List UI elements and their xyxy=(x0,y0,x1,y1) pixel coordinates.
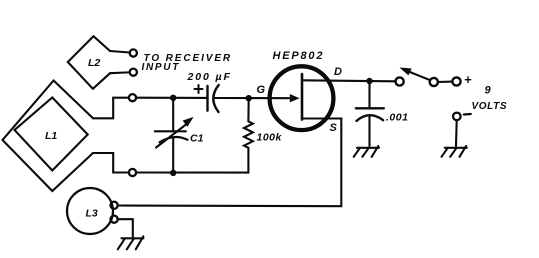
node L2 top terminal xyxy=(130,49,137,56)
node C1 bottom junction xyxy=(170,170,176,176)
coil L1 inner turn xyxy=(15,98,88,171)
node gate junction xyxy=(246,95,252,101)
transistor Q1 gate arrowhead xyxy=(290,95,298,102)
capacitor C2 200uF flat plate xyxy=(206,86,208,111)
coil L3 xyxy=(67,188,113,234)
switch S1 pivot terminal xyxy=(430,78,438,86)
battery minus dash xyxy=(464,113,471,116)
node C1 top junction xyxy=(170,95,176,101)
wire drain run xyxy=(302,80,395,81)
ground L3 xyxy=(118,236,144,249)
node tank top terminal xyxy=(129,94,136,101)
wire C1 bottom lead xyxy=(172,138,174,173)
wire .001 top lead xyxy=(368,81,370,107)
transistor Q1 channel bar xyxy=(301,74,304,120)
ground under .001 xyxy=(354,146,379,157)
ground under minus terminal xyxy=(442,146,467,157)
transistor Q1 HEP802 circle xyxy=(270,66,334,130)
svg-text:200 µF: 200 µF xyxy=(187,71,232,83)
svg-text:.001: .001 xyxy=(386,112,408,124)
svg-text:INPUT: INPUT xyxy=(142,62,181,73)
capacitor C1 arrow xyxy=(156,125,186,148)
wire .001 bottom lead xyxy=(368,116,370,146)
svg-text:L3: L3 xyxy=(86,208,98,220)
node L3 bottom terminal xyxy=(111,216,118,223)
svg-text:+: + xyxy=(464,72,472,87)
svg-text:G: G xyxy=(257,84,266,96)
wire source to L3 (long bottom run) xyxy=(118,119,342,207)
capacitor C2 200uF plus sign xyxy=(195,85,203,93)
wire L1 top breakout xyxy=(93,98,129,119)
node tank bottom terminal xyxy=(129,169,136,176)
node L2 bottom terminal xyxy=(130,69,137,76)
capacitor C1 flat plate xyxy=(155,130,186,132)
node battery plus terminal xyxy=(452,77,460,85)
capacitor C3 .001 curved plate xyxy=(357,115,384,121)
node L3 top terminal xyxy=(111,202,118,209)
wire switch to battery plus xyxy=(438,81,452,84)
wire L2 bottom terminal lead xyxy=(110,71,130,74)
svg-text:L2: L2 xyxy=(88,57,100,69)
capacitor C1 curved plate xyxy=(160,137,188,142)
wire tank top left segment xyxy=(136,97,207,99)
coil L1 outer turn xyxy=(3,81,94,192)
switch S1 arm xyxy=(410,72,430,80)
svg-text:VOLTS: VOLTS xyxy=(472,101,508,112)
wire C1 top lead xyxy=(172,98,174,131)
wire L1 bottom breakout xyxy=(93,153,129,173)
wire L3 bottom to ground xyxy=(118,219,133,236)
resistor R1 100k xyxy=(244,98,253,172)
svg-text:L1: L1 xyxy=(45,130,57,142)
svg-text:C1: C1 xyxy=(190,133,204,145)
svg-text:D: D xyxy=(334,66,342,78)
wire minus terminal to ground xyxy=(455,120,458,146)
wire tank top right segment (cap to gate) xyxy=(215,97,292,99)
wire L2 top terminal lead xyxy=(110,51,130,53)
wire tank bottom run xyxy=(136,171,248,173)
coil L2 xyxy=(68,36,110,89)
node drain junction xyxy=(366,78,372,84)
svg-text:S: S xyxy=(330,122,338,134)
switch S1 pole terminal xyxy=(396,77,404,85)
svg-text:9: 9 xyxy=(485,85,492,97)
capacitor C2 200uF curved plate xyxy=(213,85,218,112)
svg-text:100k: 100k xyxy=(257,132,283,144)
capacitor C3 .001 flat plate xyxy=(356,107,384,109)
node battery minus terminal xyxy=(453,113,461,121)
svg-text:HEP802: HEP802 xyxy=(273,50,325,62)
